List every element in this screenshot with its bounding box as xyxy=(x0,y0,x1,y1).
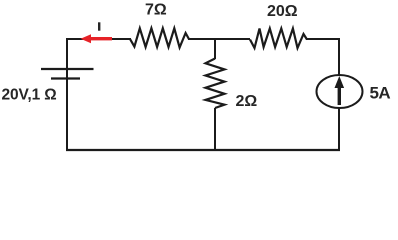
wire: current source to bottom rail xyxy=(338,108,340,151)
wire: 2-ohm branch lower segment to bottom rail xyxy=(214,108,216,150)
wire: left branch vertical (top rail through battery to bottom rail) xyxy=(66,38,68,151)
svg-text:7Ω: 7Ω xyxy=(145,2,167,19)
svg-text:5A: 5A xyxy=(370,84,391,103)
resistor 2-ohm (middle vertical zigzag) xyxy=(206,59,225,109)
svg-text:20V,1 Ω: 20V,1 Ω xyxy=(2,87,57,104)
resistor 20-ohm (top right zigzag) xyxy=(250,29,307,49)
current label I xyxy=(98,22,100,30)
current source I1 arrow (pointing up) xyxy=(335,76,345,105)
battery V1 long plate (positive) xyxy=(41,68,94,70)
node A (junction of 7-ohm, 20-ohm and 2-ohm branch) xyxy=(214,39,216,59)
battery V1 short plate (negative) xyxy=(51,77,80,79)
resistor 7-ohm (top left zigzag) xyxy=(130,28,189,47)
wire: top rail middle segment (7-ohm to 20-ohm through node A) xyxy=(188,38,250,40)
svg-text:2Ω: 2Ω xyxy=(236,93,258,110)
wire: top rail right segment (20-ohm to current source node) xyxy=(306,39,339,76)
svg-text:20Ω: 20Ω xyxy=(267,3,298,20)
current source I1 circle xyxy=(317,75,363,108)
current direction arrow (red, pointing left) xyxy=(81,34,113,43)
wire: bottom rail xyxy=(66,149,340,151)
wire: top rail left segment (battery node to 7-ohm resistor) xyxy=(67,38,131,40)
